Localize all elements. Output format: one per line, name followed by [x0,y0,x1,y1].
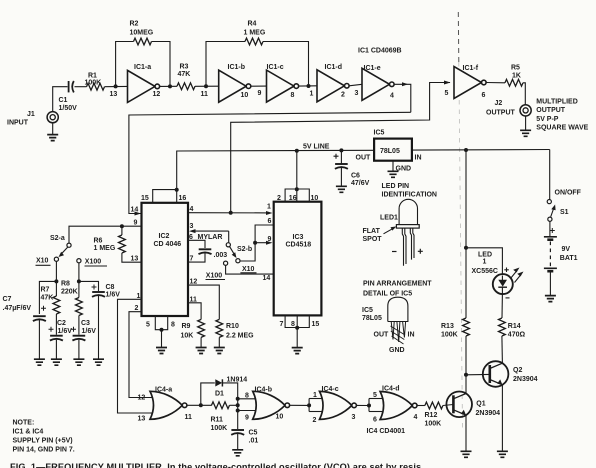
svg-text:10K: 10K [181,333,194,340]
resistor R8 [61,281,82,316]
resistor R7 [41,286,60,314]
svg-text:1K: 1K [512,73,521,80]
node D1 branch [199,403,203,407]
capacitor C2 [49,320,73,341]
node IC4-c input split [307,392,322,424]
label flat spot with arrow [363,226,397,243]
wire VCO out run to IC1-f input [231,81,451,213]
svg-text:R5: R5 [511,65,520,72]
node 9V at LED branch [464,148,468,152]
IC2 CD4046 [142,203,189,316]
svg-text:IC1-a: IC1-a [134,64,151,71]
svg-text:8: 8 [171,322,175,329]
svg-text:5: 5 [445,90,449,97]
wire to IC3 pin 9 [255,236,272,245]
svg-text:R9: R9 [182,323,191,330]
wire R5 to J2 [523,83,525,105]
wire R14 to Q2 collector [501,336,504,363]
wire Q1 emitter to ground [461,415,472,457]
svg-text:15: 15 [312,321,320,328]
svg-text:J1: J1 [27,111,35,118]
svg-text:5: 5 [373,392,377,399]
svg-text:D1: D1 [215,391,224,398]
svg-text:14: 14 [263,275,271,282]
svg-text:1N914: 1N914 [227,376,248,383]
wire R8 to C3 [78,316,80,335]
wire R13 to Q1 collector node [465,336,467,375]
capacitor C5 [231,430,258,445]
ground under J2 [520,116,531,136]
svg-text:100K: 100K [425,421,442,428]
inverter IC1-b [219,64,251,102]
inverter IC1-e [362,65,394,100]
capacitor mylar .003 [199,249,228,259]
wire IC2 pin 2 to IC4-a pin 12 [129,305,151,398]
svg-text:47K: 47K [178,71,191,78]
svg-text:NOTE:: NOTE: [13,420,35,427]
resistor R12 [425,402,443,427]
svg-text:BAT1: BAT1 [560,255,578,262]
svg-text:MYLAR: MYLAR [198,234,223,241]
svg-text:5V P-P: 5V P-P [536,116,559,123]
svg-text:X100: X100 [85,259,101,266]
node pin 13 [110,84,118,98]
svg-text:5: 5 [146,322,150,329]
svg-text:C1: C1 [59,97,68,104]
svg-text:47K: 47K [41,294,54,301]
label multiplied output [536,98,588,131]
IC5 leads with hatching [374,322,415,355]
resistor R4 [244,20,266,45]
svg-text:1 MEG: 1 MEG [244,29,266,36]
svg-text:R7: R7 [41,286,50,293]
svg-text:C3: C3 [81,320,90,327]
svg-text:11: 11 [190,296,198,303]
inverter IC1-c [267,64,299,102]
svg-text:R13: R13 [441,323,454,330]
resistor R11 [211,402,230,432]
svg-text:470Ω: 470Ω [508,331,526,338]
svg-text:2N3904: 2N3904 [513,376,538,383]
wire S2-b X100 to IC3 pin 14 [226,265,274,282]
svg-text:IC4-b: IC4-b [255,386,273,393]
svg-text:SQUARE WAVE: SQUARE WAVE [536,125,588,132]
svg-text:IC1-e: IC1-e [364,65,381,72]
svg-text:R8: R8 [61,281,70,288]
svg-text:1/6V: 1/6V [82,328,97,335]
wire IC3 pin 6 to S2-b X10 [240,218,274,261]
wire IC2 pin 11 to R9 [188,296,201,319]
wire R7 to C2 [55,314,57,335]
svg-text:9: 9 [245,415,249,422]
LED LED1 XC556C [472,251,513,298]
wire long run to IC2 pin 14 [129,112,411,213]
transistor Q1 [446,392,500,418]
svg-text:100K: 100K [441,331,458,338]
svg-text:IDENTIFICATION: IDENTIFICATION [382,191,437,198]
wire 5V riser to IC3 [296,151,298,189]
svg-text:Q1: Q1 [476,400,485,407]
LED1 anode leg [410,228,414,260]
svg-text:7: 7 [280,321,284,328]
svg-text:FLAT: FLAT [363,228,381,235]
ground under C6 [336,168,347,193]
svg-text:R4: R4 [248,20,257,27]
svg-text:8: 8 [245,392,249,399]
svg-text:IC1 & IC4: IC1 & IC4 [13,429,44,436]
svg-text:SUPPLY PIN (+5V): SUPPLY PIN (+5V) [13,438,73,445]
svg-text:100K: 100K [85,79,102,86]
svg-text:R10: R10 [226,323,239,330]
svg-text:R12: R12 [425,412,438,419]
svg-text:6: 6 [189,234,193,241]
node X10 filter [54,279,58,283]
svg-text:10: 10 [311,195,319,202]
wire feedback loop R4 [206,42,245,87]
node IC4-d input split [367,392,383,424]
svg-text:IC2: IC2 [159,233,170,240]
svg-text:78L05: 78L05 [380,148,400,155]
inverter IC1-d [317,64,349,102]
svg-text:5V LINE: 5V LINE [303,144,330,151]
note text [13,420,75,454]
svg-text:.47µF/6V: .47µF/6V [3,305,32,312]
battery BAT1 9V [544,221,578,271]
svg-text:C2: C2 [57,320,66,327]
ground under C5 [232,434,243,456]
capacitor C7 [3,296,47,321]
svg-text:1: 1 [310,91,314,98]
ground under R10 [214,337,225,353]
svg-text:1: 1 [137,293,141,300]
ground under C3 [73,340,84,366]
svg-text:.003: .003 [214,252,228,259]
svg-text:X100: X100 [206,272,222,279]
svg-text:LED1: LED1 [380,214,398,221]
wire R11 to IC4-b inputs [230,404,238,406]
svg-text:FIG. 1—FREQUENCY MULTIPLIER. I: FIG. 1—FREQUENCY MULTIPLIER. In the volt… [10,462,421,468]
svg-text:IC4-a: IC4-a [155,387,172,394]
wire LED1 to R14 [501,294,503,318]
svg-text:1: 1 [313,392,317,399]
LED emission arrows [511,268,524,283]
node 5V at IC3 riser [295,149,299,153]
svg-text:MULTIPLIED: MULTIPLIED [536,98,577,105]
wire IC1-a to R3 [160,85,178,87]
wire J1 to C1 [53,87,68,112]
svg-text:IC5: IC5 [362,307,373,314]
IC5 TO-92 package [362,297,408,322]
diode D1 1N914 [215,376,247,397]
wire LED node to R13 [465,248,467,318]
wire IC2 pins 15-16 supply staple [141,188,186,203]
ground under R9 [196,337,207,353]
svg-text:1 MEG: 1 MEG [94,245,116,252]
node divider feedback [253,241,257,245]
svg-text:4: 4 [414,414,418,421]
svg-text:LED: LED [478,251,492,258]
wire X10 contact down [55,261,57,296]
svg-text:11: 11 [185,414,193,421]
wire C1 to R1 [75,86,87,88]
svg-text:4: 4 [390,93,394,100]
svg-text:13: 13 [131,255,139,262]
svg-text:8: 8 [291,321,295,328]
svg-text:6: 6 [268,218,272,225]
resistor R14 [499,318,526,338]
wire IC2 pin 12 to R10 [188,279,219,320]
svg-text:IC1-d: IC1-d [325,64,343,71]
svg-text:2: 2 [277,195,281,202]
svg-text:R14: R14 [508,323,521,330]
svg-text:.01: .01 [249,438,259,445]
svg-text:GND: GND [396,165,412,172]
wire IC2 pin 4 to IC3 pin 1 [188,204,273,216]
svg-text:INPUT: INPUT [7,120,29,127]
resistor R5 [505,65,523,87]
wire to diode D1 [201,383,215,405]
wire node down to Q1 collector [465,375,467,394]
capacitor C1 [59,81,78,112]
svg-text:LED PIN: LED PIN [382,183,410,190]
svg-text:11: 11 [201,91,209,98]
wire 9V branch down to LED node [465,150,467,248]
svg-text:OUT: OUT [356,155,372,162]
regulator IC5 78L05 [356,130,422,162]
svg-text:13: 13 [138,415,146,422]
pin arrangement detail label [363,280,432,297]
wire IC2 pin 1 to IC4-a pin 13 [118,293,151,413]
node VCO output [229,211,233,215]
node R11 junction [236,403,240,407]
resistor R13 [441,318,469,338]
wire into IC4-b pin 8 [238,392,257,399]
wire IC4-a output [187,404,212,406]
wire R3 to IC1-b input [195,85,219,87]
svg-text:C8: C8 [106,284,115,291]
ground under battery [545,273,556,302]
node 5V at C6 [339,148,343,152]
svg-text:3: 3 [190,223,194,230]
svg-text:6: 6 [373,417,377,424]
wire IC2 pins 5-8 ground staple [146,316,175,332]
svg-text:OUT: OUT [374,331,390,338]
wire IC1-f to R5 [486,82,505,84]
svg-text:2N3904: 2N3904 [476,410,501,417]
wire IC2 pin 6 to mylar cap [188,234,222,248]
node IC1-a output [168,84,172,88]
ground under C2 [51,340,62,366]
NOR gate IC4-a [138,387,193,423]
resistor R9 [181,319,205,339]
svg-text:X10: X10 [36,258,49,265]
wire IC1-d to IC1-e [349,84,362,97]
svg-text:C5: C5 [249,430,258,437]
svg-text:8: 8 [291,92,295,99]
svg-text:10: 10 [241,92,249,99]
svg-text:X10: X10 [242,266,255,273]
LED1 package body [380,199,419,228]
wire R12 to Q1 base [443,405,454,406]
wire D1 cathode down [223,383,238,399]
svg-text:10MEG: 10MEG [130,29,154,36]
wire IC4-b to IC4-c [290,404,309,406]
svg-text:CD4518: CD4518 [286,242,312,249]
IC3 CD4518 [274,202,322,316]
svg-text:3: 3 [352,414,356,421]
resistor R6 [94,226,126,253]
svg-text:Q2: Q2 [513,367,522,374]
inverter IC1-f [454,65,486,99]
wire mylar cap to IC2 pin 7 [188,253,205,262]
svg-text:IC3: IC3 [293,234,304,241]
svg-text:9: 9 [134,220,138,227]
svg-text:3: 3 [355,90,359,97]
capacitor C6 [334,150,370,187]
ground under J1 [47,123,58,141]
svg-text:CD 4046: CD 4046 [154,241,182,248]
svg-text:12: 12 [153,91,161,98]
ground under C7 [34,320,45,365]
switch S2-b [206,243,257,280]
svg-text:12: 12 [190,279,198,286]
switch S2-a [36,235,108,266]
ground under IC2 [156,330,167,354]
svg-text:IN: IN [415,155,422,162]
node IC4-b pin 8 [236,397,240,401]
wire R1 to IC1-a input [105,85,128,87]
svg-text:10: 10 [276,413,284,420]
svg-text:J2: J2 [495,100,503,107]
svg-text:PIN ARRANGEMENT: PIN ARRANGEMENT [363,280,432,287]
wire junction vertical [237,399,239,429]
polarity labels [392,249,423,254]
ground under IC3 [292,328,303,354]
capacitor C8 [92,284,121,299]
switch S1 [547,150,581,222]
svg-text:R2: R2 [130,20,139,27]
svg-text:IC1 CD4069B: IC1 CD4069B [358,48,402,55]
wire IC2 pin 9 [120,220,142,229]
node LED branch [464,246,468,250]
LED pin identification drawing [382,183,437,198]
svg-text:1: 1 [483,258,487,265]
wire IC2 pin 3 comparator in [189,223,229,243]
svg-text:IC1-f: IC1-f [463,65,479,72]
wire into IC4-b pin 9 [238,411,257,422]
wire node to Q2 base [466,373,490,375]
ground GND pin of IC5 [388,161,412,178]
svg-text:78L05: 78L05 [362,315,382,322]
svg-text:2: 2 [135,305,139,312]
connector J2 [486,100,531,117]
svg-text:PIN 14, GND PIN 7.: PIN 14, GND PIN 7. [13,447,75,454]
svg-text:R6: R6 [94,238,103,245]
NOR gate IC4-d [380,385,417,421]
wire pin 9 to S2-a common [69,226,122,243]
svg-text:9: 9 [268,236,272,243]
svg-text:S2-a: S2-a [50,235,65,242]
op-amp inverter IC1-a [128,64,161,102]
svg-text:1: 1 [267,204,271,211]
svg-text:100K: 100K [211,425,228,432]
wire IC1-b to IC1-c [251,86,267,97]
svg-text:16: 16 [179,195,187,202]
wire feedback loop R2 [116,42,134,87]
wire X100 contact down [78,263,80,298]
wire Q2 emitter to ground [497,385,508,458]
svg-text:OUTPUT: OUTPUT [486,110,516,117]
svg-text:7: 7 [190,255,194,262]
svg-text:OUTPUT: OUTPUT [536,107,566,114]
svg-text:IN: IN [408,331,415,338]
svg-text:6: 6 [482,92,486,99]
NOR gate IC4-b [253,386,290,420]
LED1 cathode leg [402,228,406,266]
svg-text:R3: R3 [180,64,189,71]
resistor R1 [85,73,105,91]
svg-text:XC556C: XC556C [472,268,498,275]
svg-text:12: 12 [138,395,146,402]
wire IC1-c to IC1-d [299,85,317,87]
svg-text:15: 15 [141,195,149,202]
connector J1 [7,111,58,127]
svg-text:IC1-c: IC1-c [267,64,284,71]
svg-text:47/6V: 47/6V [351,180,370,187]
node pin 1 [307,84,314,98]
wire 5V line [177,144,550,191]
svg-text:2.2 MEG: 2.2 MEG [226,333,254,340]
wire R6 to IC2 pin 13 [122,253,142,262]
svg-text:14: 14 [131,207,139,214]
node pin 11 [201,84,209,98]
svg-text:ON/OFF: ON/OFF [555,190,582,197]
resistor R2 [130,20,154,45]
svg-text:9: 9 [258,90,262,97]
svg-text:1/50V: 1/50V [59,105,78,112]
wire IC4-d to R12 [417,405,425,407]
svg-text:2: 2 [313,417,317,424]
svg-text:GND: GND [389,347,405,354]
NOR gate IC4-c [320,386,357,421]
svg-text:13: 13 [110,91,118,98]
transistor Q2 [483,361,538,387]
resistor R3 [177,64,195,90]
wire node to C7 [39,281,56,314]
svg-text:S2-b: S2-b [237,246,252,253]
wire node to C8 [79,281,99,291]
svg-text:2: 2 [341,92,345,99]
wire IC3 pins 2-16-10 supply staple [277,187,318,202]
svg-text:4: 4 [190,206,194,213]
svg-text:IC4-c: IC4-c [322,386,339,393]
wire IC1-e output down to long run [394,82,411,112]
node IC4-b pin 9 [236,409,240,413]
arrowhead into IC2 pin 14 [131,207,142,216]
svg-text:SPOT: SPOT [363,236,383,243]
node Q1 collector / Q2 base [464,373,468,377]
svg-text:DETAIL OF IC5: DETAIL OF IC5 [363,290,412,297]
svg-text:1/6V: 1/6V [58,328,73,335]
wire R4 to node 1 [263,42,309,87]
resistor R10 [216,319,254,339]
svg-text:R11: R11 [211,417,224,424]
ground under C8 [93,296,104,365]
svg-text:IC4-d: IC4-d [382,385,400,392]
svg-text:IC4 CD4001: IC4 CD4001 [367,428,406,435]
wire node to LED1 [466,248,502,274]
svg-text:C6: C6 [351,173,360,180]
